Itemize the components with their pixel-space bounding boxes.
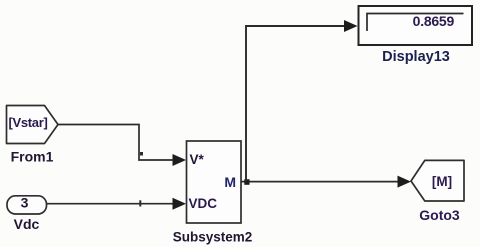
svg-text:V*: V* [190,152,205,167]
svg-text:Goto3: Goto3 [419,207,460,223]
svg-text:Vdc: Vdc [14,216,40,232]
subsystem U1 Subsystem2 [187,141,242,223]
svg-text:M: M [224,174,236,190]
svg-text:Display13: Display13 [382,49,450,65]
tick mark on wire [139,200,141,206]
goto block Goto3 [411,160,464,201]
display Display13 [359,6,473,45]
junction node [244,179,249,185]
wire branch to Display13 [246,20,358,182]
svg-text:0.8659: 0.8659 [413,13,455,29]
from block From1 [7,106,59,144]
wire From1 to Subsystem2 V* input [58,125,186,167]
tick mark on wire [140,152,143,156]
wire Vdc to Subsystem2 VDC input [47,198,187,210]
svg-text:VDC: VDC [189,196,218,211]
svg-text:3: 3 [21,195,29,211]
wire Subsystem2 M output to Goto3 [241,176,411,188]
svg-text:[M]: [M] [432,174,452,189]
svg-text:From1: From1 [11,149,54,165]
constant Vdc [7,195,47,215]
svg-text:Subsystem2: Subsystem2 [173,230,253,245]
svg-text:[Vstar]: [Vstar] [8,115,47,130]
